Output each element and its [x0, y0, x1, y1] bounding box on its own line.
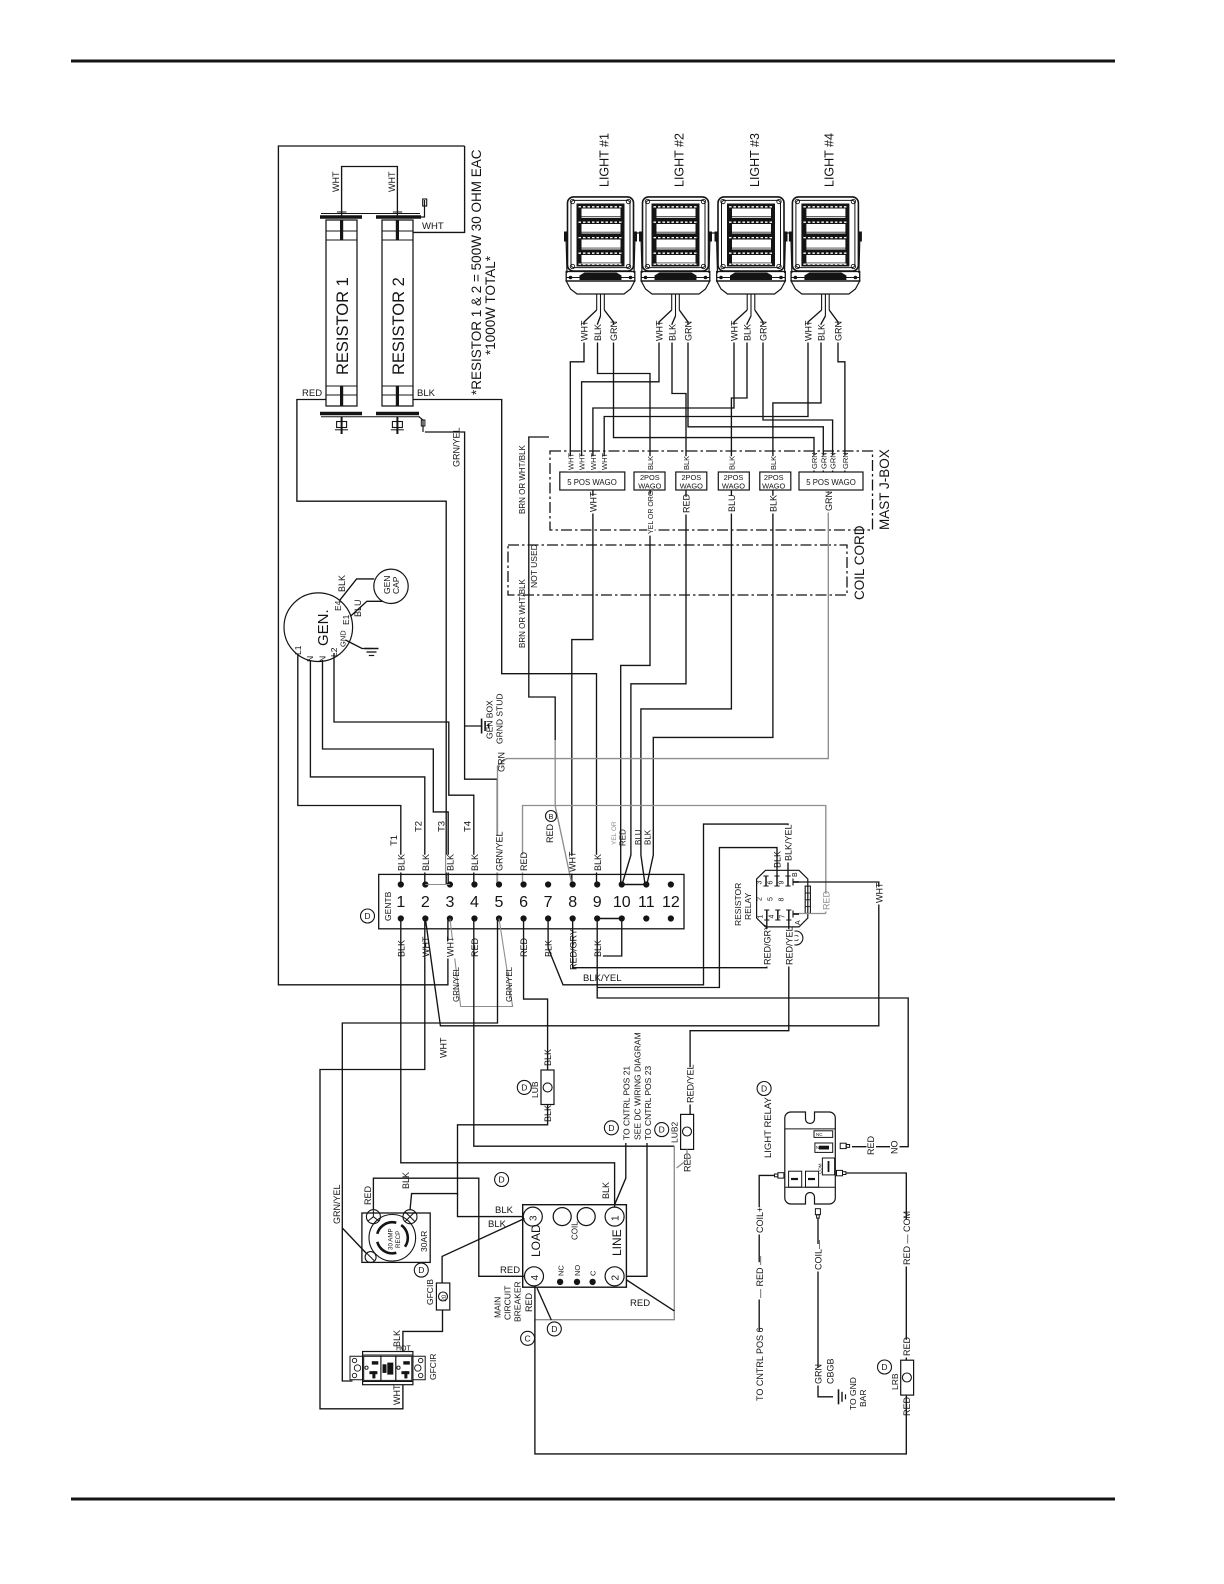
- svg-text:GRN: GRN: [609, 321, 619, 341]
- svg-text:*1000W TOTAL*: *1000W TOTAL*: [483, 255, 498, 355]
- svg-text:D: D: [499, 1175, 505, 1185]
- svg-text:LOAD: LOAD: [529, 1224, 543, 1257]
- svg-text:GRN: GRN: [810, 452, 819, 469]
- label RED/YEL above LUB2: [686, 1067, 696, 1104]
- svg-text:WHT: WHT: [331, 171, 341, 192]
- svg-text:RED: RED: [470, 937, 480, 957]
- light relay NC blade: [814, 1131, 833, 1138]
- GFCIR right outlet face: [396, 1356, 412, 1380]
- floodlight LIGHT #2 head: [643, 197, 709, 271]
- wire GENTB 5 GRN/YEL ground run: [342, 919, 497, 1382]
- svg-text:BLK: BLK: [446, 854, 456, 871]
- svg-text:T2: T2: [414, 821, 425, 832]
- wire coil cord WHT down to GENTB 8: [572, 490, 593, 884]
- labels BLK stubs into 2POS WAGOs: [647, 456, 655, 471]
- label RED/YEL below relay pin 7: [785, 929, 795, 966]
- label GRN light 2: [684, 325, 694, 343]
- label WHT light 1: [580, 325, 590, 343]
- svg-text:WHT: WHT: [655, 320, 665, 341]
- svg-text:GRN: GRN: [834, 321, 844, 341]
- floodlight LIGHT #3 head: [718, 197, 784, 271]
- floodlight LIGHT #4 yoke arms: [791, 236, 792, 273]
- svg-text:WHT: WHT: [804, 320, 814, 341]
- light relay coil blades: [789, 1171, 802, 1187]
- ground symbol at GEN: [365, 648, 379, 650]
- svg-text:WHT: WHT: [439, 1037, 449, 1058]
- svg-text:WHT: WHT: [446, 936, 456, 957]
- wire LIGHT #2 WHT lead: [582, 310, 672, 472]
- svg-text:WHT: WHT: [387, 171, 397, 192]
- svg-text:D: D: [364, 911, 370, 921]
- light relay coil- terminal lug: [815, 1209, 820, 1215]
- receptacle 30 AMP RECP body: [362, 1213, 430, 1262]
- svg-text:4: 4: [768, 915, 775, 919]
- label RED above LRB: [903, 1340, 913, 1358]
- light relay body: [785, 1112, 836, 1204]
- resistor relay pin B: [793, 881, 799, 883]
- label RED below LRB: [903, 1400, 913, 1418]
- wire GFCIR WHT to GENTB 2: [320, 919, 425, 1409]
- svg-text:GRN: GRN: [829, 452, 838, 469]
- svg-text:TO CNTRL POS 23: TO CNTRL POS 23: [643, 1066, 653, 1140]
- label BLK below LUB: [544, 1106, 554, 1124]
- GFCIR left outlet face: [364, 1356, 381, 1380]
- wire resistor R2 to series loop WHT: [413, 146, 465, 232]
- svg-text:SEE DC WIRING DIAGRAM: SEE DC WIRING DIAGRAM: [633, 1032, 643, 1140]
- wire LUB2 down to grey riser: [677, 1149, 688, 1168]
- wire resistor relay pin A stub to grey RED riser: [799, 913, 826, 915]
- svg-text:GRN/YEL: GRN/YEL: [452, 427, 462, 467]
- resistor bottom mounting plate: [320, 412, 362, 415]
- floodlight LIGHT #4 lower housing: [791, 281, 860, 294]
- wire GEN T2 to GENTB 2: [310, 660, 424, 884]
- floodlight LIGHT #4 head: [792, 197, 858, 271]
- wire coil cord GRN down to GENTB 5 (grey): [498, 490, 829, 884]
- light relay COM terminal lug: [837, 1170, 843, 1175]
- floodlight LIGHT #1 base band: [566, 272, 635, 282]
- svg-text:D: D: [418, 1265, 424, 1275]
- wire GENTB 4 RED to breaker pin 2 rail: [474, 919, 675, 1147]
- light relay COM blade: [822, 1158, 834, 1175]
- label RED above GENTB 6: [520, 855, 530, 873]
- svg-text:1: 1: [611, 1215, 622, 1221]
- svg-text:9: 9: [779, 881, 786, 885]
- labels below GENTB: [397, 941, 407, 959]
- wire coil cord RED down to GENTB 10: [622, 490, 686, 884]
- svg-text:BLK: BLK: [593, 854, 603, 871]
- resistor relay pin 6: [776, 876, 778, 886]
- wire BRN OR WHT/BLK conductor: [529, 437, 555, 740]
- circled D at light relay: [757, 1082, 771, 1096]
- svg-text:D: D: [608, 1123, 614, 1133]
- svg-text:D: D: [761, 1084, 767, 1094]
- wire GFCIB to GFCIR HOT BLK: [403, 1310, 443, 1351]
- GENTB terminal numbers 1-12: [396, 894, 680, 911]
- svg-text:LIGHT #1: LIGHT #1: [598, 133, 612, 187]
- main circuit breaker body: [523, 1205, 627, 1288]
- wire LIGHT #3 WHT lead: [593, 310, 747, 472]
- svg-text:HOT: HOT: [396, 1346, 412, 1353]
- svg-text:GEN BOX: GEN BOX: [485, 700, 495, 739]
- floodlight LIGHT #1 lower housing: [566, 281, 635, 294]
- circled D below 30AR: [414, 1263, 428, 1277]
- svg-text:7: 7: [779, 915, 786, 919]
- svg-text:D: D: [881, 1362, 887, 1372]
- label BLK above relay pin 6: [773, 852, 783, 870]
- svg-text:COIL: COIL: [571, 1221, 580, 1240]
- svg-text:B: B: [792, 872, 799, 877]
- label GRN at CBGB: [814, 1368, 824, 1386]
- label BLU below WAGO: [728, 496, 738, 514]
- wire GEN T3 to GENTB 3: [323, 660, 449, 884]
- labels GRN stubs into 5 POS WAGO right: [811, 455, 819, 470]
- svg-text:WAGO: WAGO: [680, 482, 703, 491]
- svg-text:9: 9: [593, 894, 602, 911]
- resistor R2 bottom bolt: [396, 417, 398, 434]
- svg-text:BLK: BLK: [769, 456, 778, 470]
- receptacle 30AR face circle: [369, 1215, 416, 1262]
- svg-text:BLU: BLU: [353, 599, 363, 617]
- svg-text:BLU: BLU: [727, 494, 737, 512]
- svg-text:C: C: [525, 1333, 531, 1343]
- wire GEN T1 to GENTB 1: [298, 654, 401, 884]
- wire LIGHT #4 WHT lead: [604, 310, 821, 472]
- wire breaker pin 4 down to bottom rail to LRB: [535, 1286, 906, 1454]
- svg-text:BLK: BLK: [470, 854, 480, 871]
- svg-text:LIGHT RELAY: LIGHT RELAY: [763, 1096, 774, 1158]
- wire branch to 30AR ground terminal: [342, 1228, 366, 1254]
- svg-text:10: 10: [613, 894, 631, 911]
- label WHT below WAGO: [589, 496, 599, 514]
- light relay NO terminal lug: [840, 1143, 846, 1148]
- svg-text:BLK: BLK: [727, 456, 736, 470]
- floodlight LIGHT #1 head: [568, 197, 634, 271]
- GENTB jumper terminals 10-11 top: [622, 884, 647, 886]
- wire GENTB 8 to resistor relay pin 1 RED/GRY: [573, 919, 767, 968]
- svg-text:GFCIB: GFCIB: [425, 1279, 435, 1305]
- floodlight LIGHT #3 lower housing: [717, 281, 786, 294]
- svg-text:GND: GND: [339, 630, 348, 647]
- circled D near breaker pin 3 wire: [495, 1173, 509, 1187]
- breaker terminal 3: [523, 1207, 542, 1226]
- svg-text:4: 4: [530, 1275, 541, 1281]
- svg-text:BLU: BLU: [634, 829, 643, 845]
- wire GENTB 7 to resistor relay pin 9 BLK/YEL: [548, 824, 788, 985]
- wire series loop (top and left side): [278, 146, 464, 985]
- svg-text:RED: RED: [545, 823, 555, 843]
- svg-text:BLK/YEL: BLK/YEL: [583, 973, 622, 984]
- svg-text:CIRCUIT: CIRCUIT: [502, 1286, 512, 1320]
- GENTB jumper terminals 2-3 top: [425, 884, 450, 886]
- svg-text:RESISTOR 2: RESISTOR 2: [390, 277, 408, 375]
- svg-text:E4: E4: [333, 600, 343, 611]
- svg-text:LIGHT #2: LIGHT #2: [673, 133, 687, 187]
- resistor R1 body: [326, 220, 357, 406]
- light mounting bar segments: [635, 232, 642, 234]
- svg-text:RED — COM: RED — COM: [902, 1211, 912, 1265]
- circled D at GENTB: [361, 909, 375, 923]
- wire LUB bottom to breaker pin 3 feed: [458, 1105, 548, 1196]
- label BLK light 1: [594, 325, 604, 343]
- floodlight LIGHT #2 side knobs: [639, 232, 643, 242]
- svg-text:4: 4: [470, 894, 479, 911]
- connector 2POS WAGO #2: [676, 472, 707, 490]
- svg-text:WAGO: WAGO: [722, 482, 745, 491]
- svg-text:BLK: BLK: [337, 575, 347, 592]
- wire TO CNTRL POS 23 to breaker pin 2 riser: [627, 1143, 647, 1276]
- labels WHT stubs into 5 POS WAGO left: [567, 456, 575, 471]
- floodlight LIGHT #1 stem: [596, 294, 598, 310]
- svg-text:RED: RED: [821, 890, 831, 910]
- svg-text:RED: RED: [363, 1185, 373, 1205]
- svg-text:LUB2: LUB2: [670, 1121, 680, 1143]
- svg-text:WHT: WHT: [580, 320, 590, 341]
- svg-text:BLK: BLK: [392, 1330, 402, 1347]
- svg-text:5 POS WAGO: 5 POS WAGO: [567, 478, 617, 487]
- svg-text:12: 12: [662, 894, 680, 911]
- svg-text:WHT: WHT: [600, 453, 609, 470]
- floodlight LIGHT #1 yoke arms: [566, 236, 567, 273]
- svg-text:GRN: GRN: [824, 491, 834, 511]
- label YEL OR ORG below WAGO: [647, 494, 654, 535]
- GENTB bottom terminal dots: [398, 915, 674, 921]
- svg-text:GRN: GRN: [814, 1364, 824, 1384]
- svg-text:COIL—: COIL—: [814, 1240, 824, 1270]
- breaker terminal 1: [605, 1207, 624, 1226]
- COIL CORD enclosure: [508, 545, 847, 595]
- svg-text:BLK: BLK: [817, 324, 827, 341]
- label BLK light 2: [668, 325, 678, 343]
- fuse GFCIB body: [436, 1283, 449, 1310]
- wire resistor R1 RED drop: [297, 400, 446, 885]
- wire LIGHT #1 BLK lead: [598, 316, 651, 472]
- svg-text:RED/YEL: RED/YEL: [784, 926, 794, 965]
- svg-text:CAP: CAP: [391, 576, 401, 594]
- svg-text:C: C: [589, 1270, 598, 1276]
- resistor relay pin A: [793, 913, 799, 915]
- wire LIGHT #3 BLK lead: [731, 316, 751, 472]
- label BLK light 3: [743, 325, 753, 343]
- label GRN light 1: [610, 325, 620, 343]
- connector 5 POS WAGO (left): [560, 472, 625, 490]
- svg-text:BLK: BLK: [495, 1205, 514, 1216]
- generator GEN circle: [284, 593, 353, 662]
- svg-text:BLK: BLK: [668, 324, 678, 341]
- wire GENTB 9 to resistor relay pin 6 BLK: [597, 848, 777, 988]
- svg-text:D: D: [659, 1125, 665, 1135]
- svg-text:WHT: WHT: [874, 882, 884, 903]
- breaker coil circles: [553, 1208, 571, 1226]
- svg-text:LINE: LINE: [610, 1229, 624, 1256]
- wire resistor relay pin B WHT to GENTB 2: [425, 882, 878, 1026]
- svg-text:11: 11: [638, 894, 655, 911]
- wire grey riser from LINE rail down to bottom grey rail: [535, 1146, 674, 1320]
- svg-text:GRND STUD: GRND STUD: [495, 693, 505, 744]
- floodlight LIGHT #2 base band: [641, 272, 710, 282]
- wire LIGHT #3 GRN lead: [755, 310, 833, 472]
- svg-text:6: 6: [768, 881, 775, 885]
- svg-text:RED: RED: [519, 851, 529, 871]
- label BLK below WAGO: [769, 496, 779, 514]
- svg-text:BLK: BLK: [417, 388, 436, 399]
- connector 5 POS WAGO (right): [799, 472, 863, 490]
- svg-text:6: 6: [519, 894, 528, 911]
- svg-text:NC: NC: [816, 1132, 823, 1137]
- label GRN/YEL above GENTB 5: [495, 835, 505, 872]
- fuse LRB body: [901, 1360, 914, 1395]
- svg-text:7: 7: [544, 894, 553, 911]
- wire GENTB 9 to light relay NO: [597, 988, 908, 1147]
- svg-text:WHT: WHT: [566, 453, 575, 470]
- svg-text:T1: T1: [389, 835, 400, 846]
- svg-text:GRN: GRN: [684, 321, 694, 341]
- svg-text:NC: NC: [557, 1265, 566, 1276]
- svg-text:NO: NO: [816, 1145, 823, 1150]
- svg-text:WAGO: WAGO: [762, 482, 785, 491]
- svg-text:5: 5: [768, 897, 775, 901]
- svg-text:BLK: BLK: [644, 829, 653, 845]
- svg-text:WAGO: WAGO: [638, 482, 661, 491]
- svg-text:LIGHT #4: LIGHT #4: [822, 133, 836, 187]
- label BLK above LUB: [544, 1050, 554, 1068]
- svg-text:30AR: 30AR: [419, 1231, 429, 1252]
- svg-text:WHT: WHT: [578, 453, 587, 470]
- svg-text:D: D: [521, 1082, 527, 1092]
- label BLK light 4: [817, 325, 827, 343]
- wire resistor R2 BLK drop: [413, 400, 597, 885]
- svg-text:GRN/YEL: GRN/YEL: [452, 966, 461, 1002]
- svg-text:NO: NO: [573, 1265, 582, 1276]
- svg-text:8: 8: [779, 898, 786, 902]
- svg-text:YEL OR ORG: YEL OR ORG: [648, 491, 655, 534]
- wire 30AR Y RED to breaker pin 4: [373, 1178, 524, 1276]
- svg-text:30 AMP: 30 AMP: [388, 1228, 395, 1250]
- floodlight LIGHT #2 lower housing: [641, 281, 710, 294]
- wire GEN E4 to GEN CAP BLK: [340, 579, 375, 601]
- svg-text:GRN/YEL: GRN/YEL: [495, 831, 505, 871]
- light relay inner lines: [785, 1128, 836, 1130]
- label COIL+ RED TO CNTRL POS 6: [755, 1207, 765, 1235]
- label WHT light 2: [655, 325, 665, 343]
- svg-text:*RESISTOR 1 & 2 = 500W 30 OHM: *RESISTOR 1 & 2 = 500W 30 OHM EAC: [469, 149, 484, 395]
- svg-text:BRN OR WHT/BLK: BRN OR WHT/BLK: [518, 444, 527, 514]
- floodlight LIGHT #3 yoke arms: [717, 236, 718, 273]
- svg-text:2: 2: [757, 897, 764, 901]
- wire light relay COM to LRB: [846, 1173, 906, 1360]
- GFCIR center test/reset buttons: [381, 1356, 396, 1380]
- svg-text:5: 5: [495, 894, 504, 911]
- circled C below breaker: [521, 1331, 535, 1345]
- label NO wire: [890, 1143, 900, 1156]
- svg-text:T3: T3: [437, 821, 448, 832]
- GENTB top terminal dots: [398, 881, 674, 887]
- svg-text:RESISTOR: RESISTOR: [733, 883, 743, 926]
- svg-text:3: 3: [445, 894, 454, 911]
- label COIL-: [814, 1244, 824, 1272]
- svg-text:B: B: [548, 812, 553, 821]
- svg-text:5 POS WAGO: 5 POS WAGO: [806, 478, 856, 487]
- floodlight LIGHT #2 stem: [671, 294, 673, 310]
- svg-text:MAST J-BOX: MAST J-BOX: [877, 449, 892, 530]
- svg-text:RESISTOR 1: RESISTOR 1: [334, 277, 352, 375]
- svg-text:TO CNTRL POS 6: TO CNTRL POS 6: [755, 1327, 765, 1401]
- label WHT light 3: [730, 325, 740, 343]
- resistor top mounting plate: [320, 215, 362, 218]
- svg-text:GRN: GRN: [497, 752, 507, 772]
- svg-text:GENTB: GENTB: [383, 891, 393, 921]
- svg-text:RED: RED: [524, 1292, 534, 1312]
- wire light relay coil+ down TO CNTRL POS 6: [759, 1175, 774, 1402]
- labels BLK above GENTB 1-4: [397, 855, 407, 873]
- label RED COM vertical: [903, 1219, 913, 1266]
- resistor relay pin 7: [788, 910, 790, 920]
- breaker terminal 2: [605, 1267, 624, 1286]
- svg-text:RED/YEL: RED/YEL: [686, 1064, 696, 1103]
- wire GENTB 1 to breaker pin 1 BLK: [401, 919, 615, 1208]
- wire GEN T4 to GENTB 4: [334, 653, 474, 884]
- svg-text:NOT USED: NOT USED: [529, 544, 539, 588]
- svg-text:RED: RED: [630, 1298, 650, 1309]
- svg-text:RELAY: RELAY: [743, 892, 753, 920]
- svg-text:2: 2: [611, 1275, 622, 1281]
- breaker terminal 4: [525, 1267, 544, 1286]
- svg-text:WHT: WHT: [589, 453, 598, 470]
- resistor relay pin 4: [777, 910, 779, 920]
- wire breaker pin 2 diagonal to LUB2 grey riser: [627, 1280, 675, 1311]
- svg-text:GRN: GRN: [819, 452, 828, 469]
- svg-text:BLK/YEL: BLK/YEL: [784, 824, 794, 861]
- svg-text:GRN: GRN: [759, 321, 769, 341]
- circled C below resistor relay: [789, 931, 803, 945]
- svg-text:BLK: BLK: [488, 1219, 507, 1230]
- svg-text:COIL CORD: COIL CORD: [852, 525, 867, 600]
- floodlight LIGHT #3 base band: [717, 272, 786, 282]
- floodlight LIGHT #4 side knobs: [789, 232, 793, 242]
- wire resistor GRN/YEL drop: [425, 432, 497, 884]
- floodlight LIGHT #4 base band: [791, 272, 860, 282]
- svg-text:RED: RED: [302, 388, 322, 399]
- wire coil cord BLU down to GENTB 11: [641, 490, 732, 884]
- svg-text:BLK: BLK: [743, 324, 753, 341]
- svg-text:BRN OR WHT/BLK: BRN OR WHT/BLK: [518, 578, 527, 648]
- resistor top bracket: [421, 200, 425, 217]
- label RED NO wire: [867, 1139, 877, 1157]
- svg-text:CBGB: CBGB: [826, 1358, 836, 1384]
- light relay NO blade: [815, 1143, 833, 1152]
- svg-text:LIGHT #3: LIGHT #3: [748, 133, 762, 187]
- svg-text:WHT: WHT: [588, 491, 598, 512]
- resistor relay pin 9: [787, 876, 789, 886]
- label WHT relay pin B wire: [875, 887, 885, 905]
- wire GFCIB to breaker pin 3 BLK diagonal: [442, 1219, 524, 1284]
- svg-text:LRB: LRB: [890, 1373, 900, 1390]
- label BLK/YEL above relay pin 9: [784, 825, 794, 862]
- svg-text:BLK: BLK: [768, 495, 778, 512]
- svg-text:BLK: BLK: [421, 854, 431, 871]
- label GRN light 4: [834, 325, 844, 343]
- floodlight LIGHT #2 yoke arms: [641, 236, 642, 273]
- resistor bottom bracket bolt: [419, 417, 423, 432]
- svg-text:— RED —: — RED —: [755, 1256, 765, 1298]
- receptacle terminal Y: [366, 1210, 380, 1224]
- svg-text:RED: RED: [500, 1265, 520, 1276]
- floodlight LIGHT #3 stem: [746, 294, 748, 310]
- terminal strip GENTB body: [379, 874, 684, 928]
- resistor relay pin 3: [765, 876, 767, 886]
- svg-text:8: 8: [568, 894, 577, 911]
- svg-text:GEN.: GEN.: [315, 609, 332, 646]
- svg-text:D: D: [551, 1324, 557, 1334]
